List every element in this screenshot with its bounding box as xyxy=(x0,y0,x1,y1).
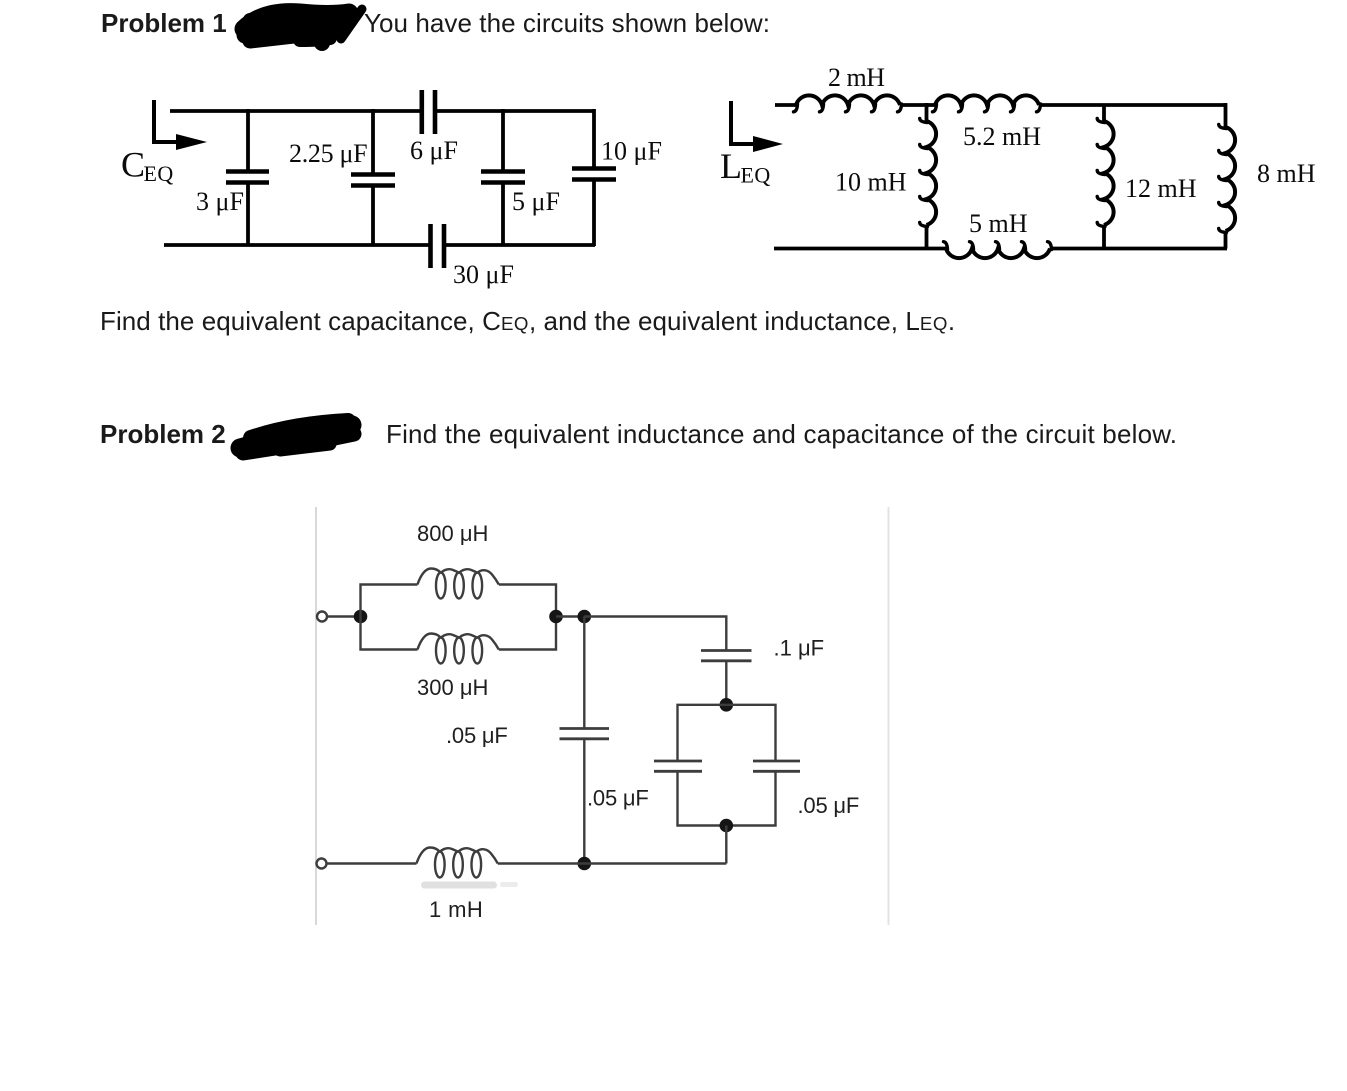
wire: top to .1 uF capacitor xyxy=(584,617,726,650)
svg-text:5.2 mH: 5.2 mH xyxy=(963,122,1041,151)
redaction scribble over problem 2 name xyxy=(240,421,354,453)
capacitor 6 uF (series in top rail) xyxy=(422,90,435,134)
wire: top rail right segment xyxy=(437,109,594,113)
svg-text:300 μH: 300 μH xyxy=(417,675,488,700)
capacitor 10 uF (right branch) xyxy=(572,109,616,246)
node: top of parallel cap pair xyxy=(720,698,734,712)
wire from top terminal to node xyxy=(327,615,356,617)
capacitor 3 uF (shunt branch) xyxy=(226,109,269,246)
wire: bottom rail to 1 mH xyxy=(327,862,417,864)
wire: top rail right segment xyxy=(1039,103,1227,107)
inductor 1 mH (series bottom) xyxy=(417,848,498,878)
redaction scribble over problem 1 name xyxy=(244,9,362,51)
inductor 2 mH (series top) xyxy=(794,95,902,111)
svg-text:C: C xyxy=(121,145,145,185)
wire: bottom rail left segment xyxy=(164,243,429,247)
wire: cap pair bottom to bottom rail xyxy=(725,826,727,864)
svg-text:EQ: EQ xyxy=(741,163,771,188)
svg-text:8 mH: 8 mH xyxy=(1257,159,1316,188)
inductor 12 mH (shunt branch) xyxy=(1097,105,1113,249)
svg-text:5 mH: 5 mH xyxy=(969,209,1028,238)
label LEQ xyxy=(720,146,771,188)
input terminal bottom (open circle) xyxy=(317,859,327,869)
svg-text:12 mH: 12 mH xyxy=(1125,174,1197,203)
faint erased-text smudge under 1 mH xyxy=(421,882,497,889)
capacitor .05 uF (right of pair) xyxy=(726,705,800,826)
capacitor 30 uF (series in bottom rail) xyxy=(431,224,445,268)
svg-text:1 mH: 1 mH xyxy=(429,897,483,922)
CEQ reference arrow xyxy=(154,100,207,150)
svg-text:EQ: EQ xyxy=(144,161,174,186)
heading line: Problem 2 xyxy=(100,419,226,450)
svg-text:.05 μF: .05 μF xyxy=(587,786,649,811)
pasted image faint border right xyxy=(888,507,890,925)
svg-text:30 μF: 30 μF xyxy=(453,260,514,289)
node: bottom of parallel cap pair xyxy=(720,819,734,833)
wire: top rail stub left xyxy=(775,103,797,107)
svg-text:10 mH: 10 mH xyxy=(835,168,907,197)
capacitor .1 uF xyxy=(701,651,752,661)
inductor 300 uH (lower parallel branch) xyxy=(361,617,557,664)
statement line: find equivalent xyxy=(100,306,955,337)
inductor 5.2 mH (series top) xyxy=(933,95,1041,111)
wire: bottom rail right segment xyxy=(1050,247,1227,251)
svg-text:5 μF: 5 μF xyxy=(512,187,560,216)
label CEQ xyxy=(121,145,174,187)
inductor 8 mH (right branch) xyxy=(1219,103,1235,249)
svg-text:6 μF: 6 μF xyxy=(410,136,458,165)
wire: bottom rail left segment xyxy=(774,247,947,251)
node: bottom rail junction xyxy=(578,857,592,871)
capacitor 5 uF (shunt branch) xyxy=(481,109,525,246)
wire between junction nodes xyxy=(556,615,584,617)
heading line: Problem 1 xyxy=(101,8,770,39)
svg-text:.05 μF: .05 μF xyxy=(446,723,508,748)
wire: top rail between 2mH and junction xyxy=(900,103,936,107)
svg-text:800 μH: 800 μH xyxy=(417,521,488,546)
wire: .1 uF to parallel cap pair xyxy=(725,662,727,704)
svg-text:2 mH: 2 mH xyxy=(828,63,885,92)
wire: bottom rail right segment xyxy=(446,243,595,247)
inductor 10 mH (shunt branch) xyxy=(920,103,936,249)
LEQ reference arrow xyxy=(731,101,783,152)
node: left junction of parallel inductors xyxy=(354,610,368,624)
capacitor 2.25 uF (shunt branch) xyxy=(351,109,395,246)
capacitor .05 uF (middle branch) xyxy=(560,617,610,864)
node: middle top junction xyxy=(578,610,592,624)
svg-text:10 μF: 10 μF xyxy=(601,137,662,166)
svg-text:3 μF: 3 μF xyxy=(196,187,244,216)
pasted image faint border left xyxy=(315,507,317,925)
svg-text:.05 μF: .05 μF xyxy=(798,793,860,818)
inductor 800 uH (upper parallel branch) xyxy=(361,569,557,617)
svg-text:2.25 μF: 2.25 μF xyxy=(289,139,367,168)
svg-text:.1 μF: .1 μF xyxy=(774,636,825,661)
node: right junction of parallel inductors xyxy=(549,610,563,624)
input terminal top (open circle) xyxy=(317,612,327,622)
inductor 5 mH (series bottom) xyxy=(944,242,1052,258)
wire: top rail left segment xyxy=(170,109,420,113)
capacitor .05 uF (left of pair) xyxy=(654,705,726,826)
svg-text:L: L xyxy=(720,146,742,186)
wire: bottom rail right xyxy=(498,862,727,864)
